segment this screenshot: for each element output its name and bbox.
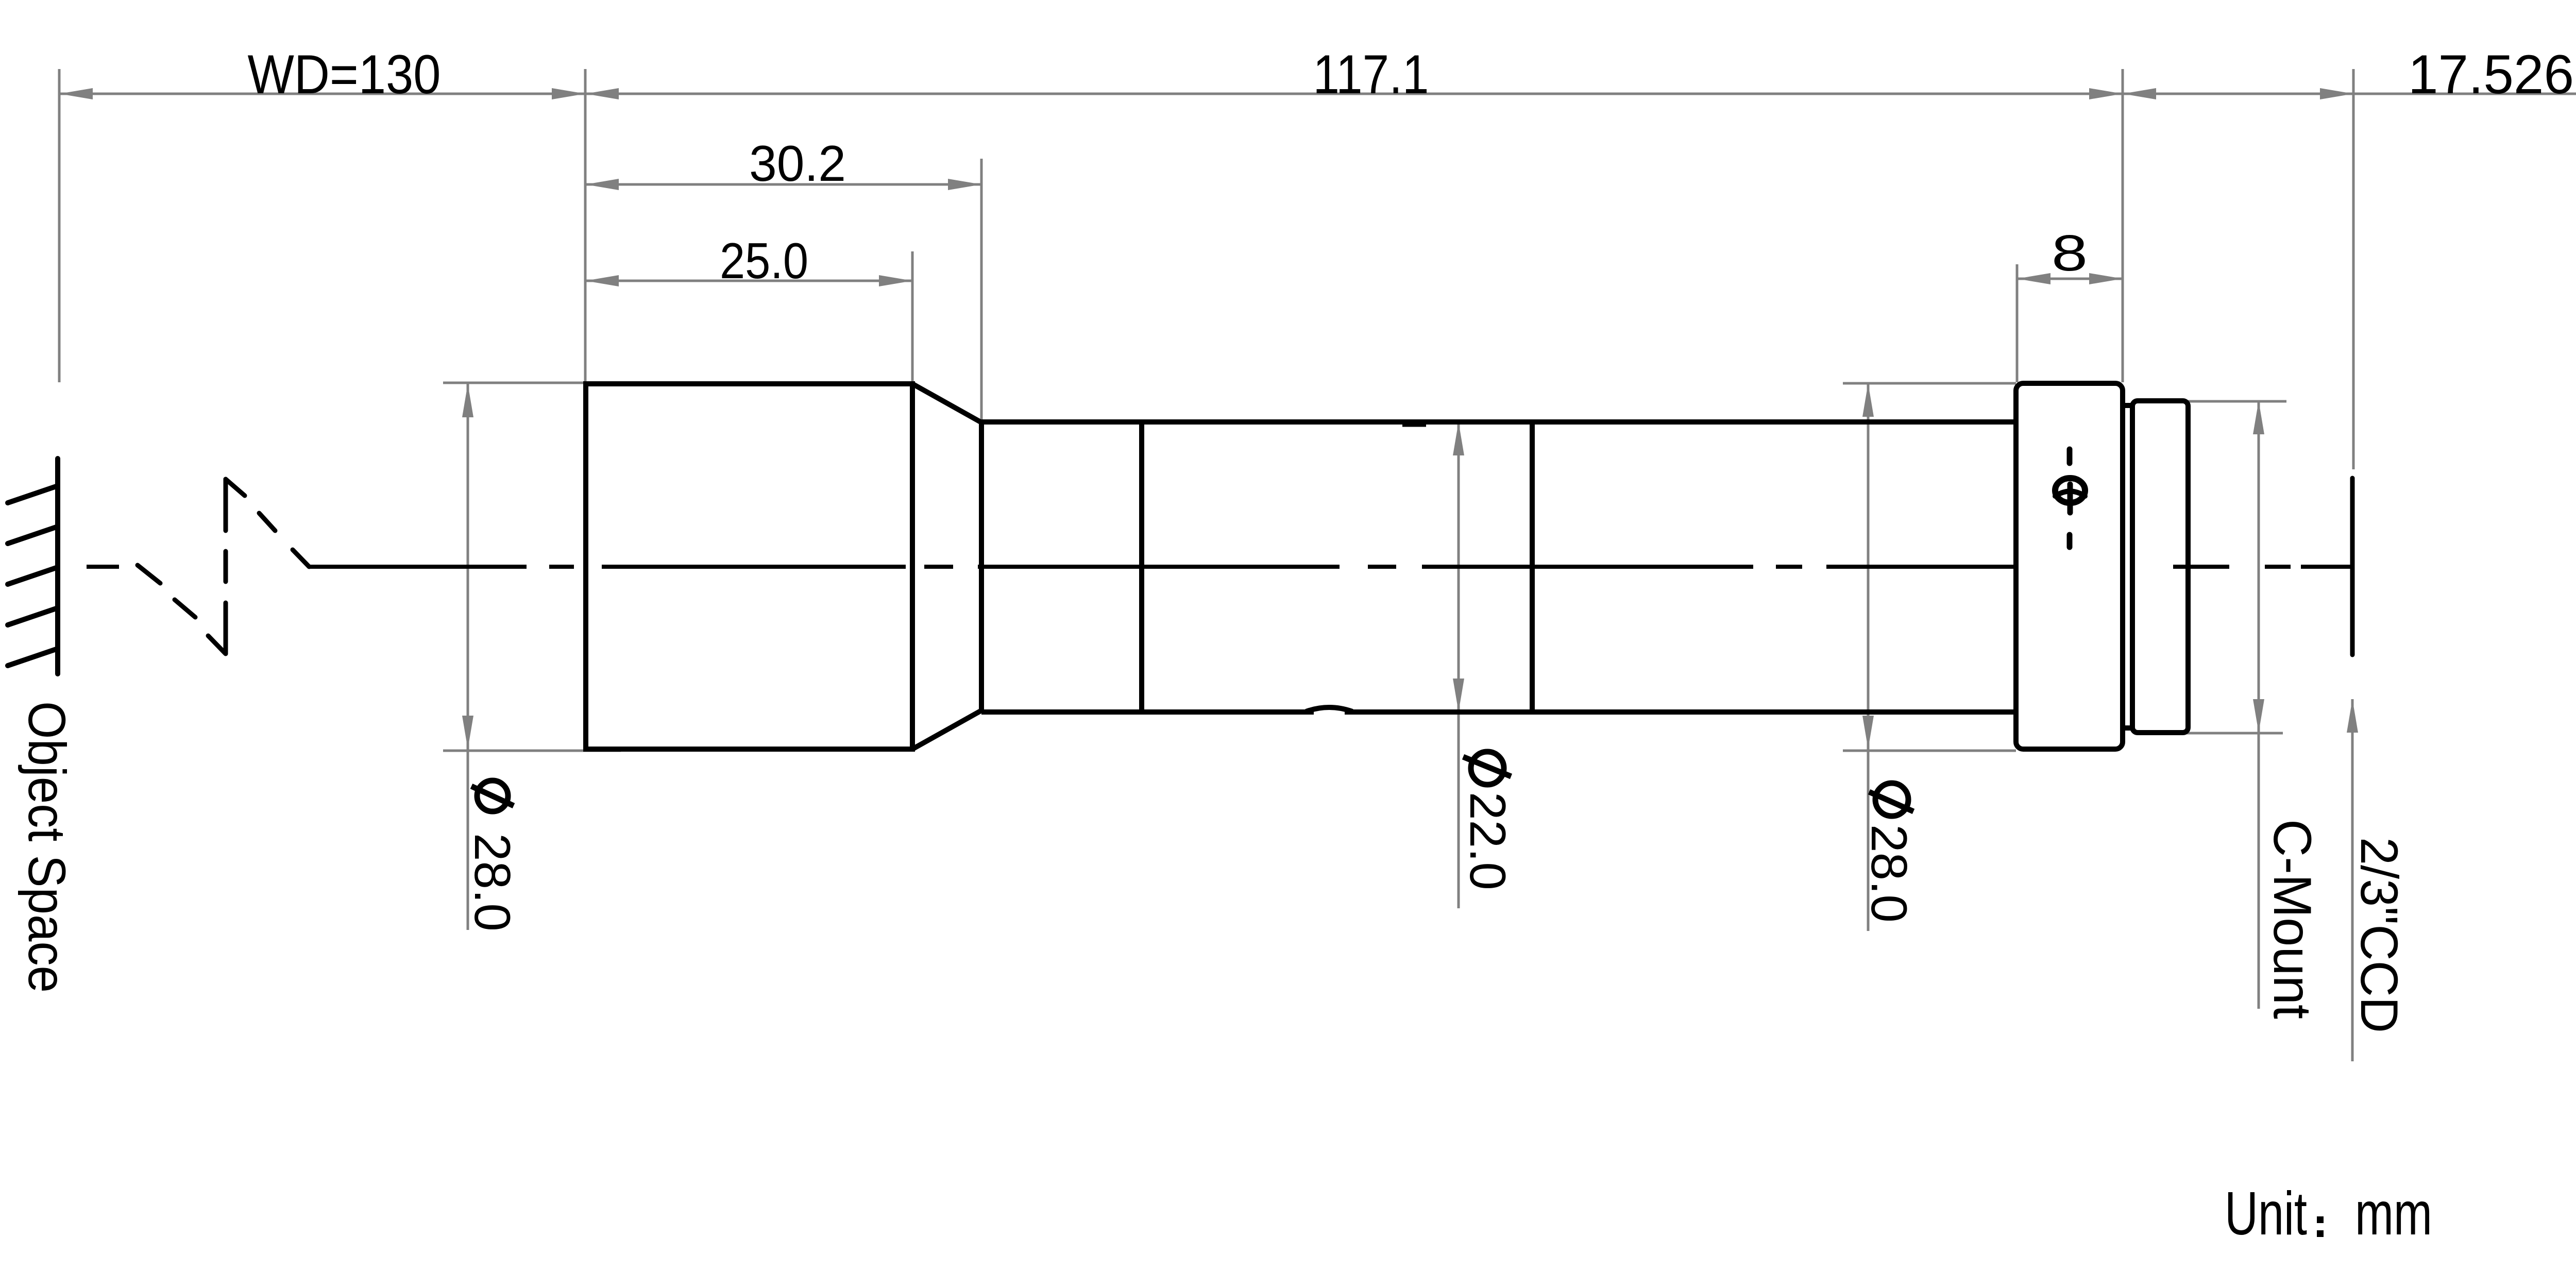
svg-text:Object Space: Object Space [18, 701, 76, 993]
svg-text:22.0: 22.0 [1460, 792, 1516, 890]
svg-text:8: 8 [2052, 225, 2088, 281]
svg-text:Unit: Unit [2225, 1179, 2307, 1248]
svg-text:mm: mm [2355, 1179, 2432, 1248]
svg-text:25.0: 25.0 [720, 232, 808, 289]
svg-text:28.0: 28.0 [1861, 824, 1918, 923]
svg-text:WD=130: WD=130 [248, 43, 441, 105]
svg-text:C-Mount: C-Mount [2262, 819, 2322, 1019]
svg-text:30.2: 30.2 [749, 135, 846, 192]
svg-text:117.1: 117.1 [1313, 43, 1429, 105]
svg-text:28.0: 28.0 [464, 833, 521, 931]
svg-text:17.526: 17.526 [2408, 43, 2574, 105]
svg-text:2/3"CCD: 2/3"CCD [2350, 837, 2409, 1033]
